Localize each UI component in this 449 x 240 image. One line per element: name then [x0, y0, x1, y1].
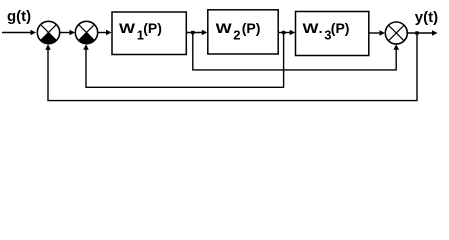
wire W1 to W2: [186, 32, 203, 34]
arrowhead into S2: [70, 30, 76, 36]
arrowhead into W1: [106, 30, 112, 36]
summer S1: [37, 21, 59, 43]
label W1(P): [119, 20, 162, 42]
arrowhead output: [432, 30, 438, 36]
arrowhead into W2: [202, 30, 208, 36]
svg-text:(P): (P): [331, 20, 350, 36]
label W.3(P): [303, 20, 350, 42]
wire S1 to S2: [60, 32, 71, 34]
label W2(P): [216, 20, 261, 42]
wire input: [2, 32, 32, 34]
junction dot tap2: [282, 31, 285, 34]
junction dot tap1: [191, 31, 194, 34]
svg-text:W: W: [303, 20, 320, 36]
wire S2 to W1: [98, 32, 107, 34]
junction dot output: [415, 31, 418, 34]
wire feedback B from tap1 to S3: [193, 34, 396, 70]
arrowhead into S2 bottom: [83, 44, 89, 50]
wire W3 to S3: [369, 32, 381, 34]
wire feedback C from tap2 to S2: [86, 34, 284, 87]
svg-text:2: 2: [233, 27, 240, 42]
summer S2: [75, 21, 97, 43]
svg-text:y(t): y(t): [415, 9, 438, 26]
block W2: [208, 10, 278, 54]
svg-text:W: W: [216, 20, 233, 36]
svg-text:(P): (P): [143, 20, 162, 36]
svg-text:(P): (P): [242, 20, 261, 36]
svg-text:g(t): g(t): [7, 8, 31, 25]
arrowhead into W3: [290, 30, 296, 36]
arrowhead into S1 bottom: [45, 44, 51, 50]
summer S3: [385, 22, 407, 44]
arrowhead into S1: [31, 30, 37, 36]
wire feedback D outer loop from output to S1: [48, 34, 417, 101]
arrowhead into S3: [380, 30, 386, 36]
block W1: [112, 12, 186, 55]
wire output: [407, 32, 433, 34]
svg-text:W: W: [119, 20, 136, 36]
arrowhead into S3 bottom: [393, 44, 399, 50]
svg-text:.: .: [319, 20, 323, 36]
block W3: [296, 12, 369, 56]
wire W2 to W3: [278, 32, 291, 34]
